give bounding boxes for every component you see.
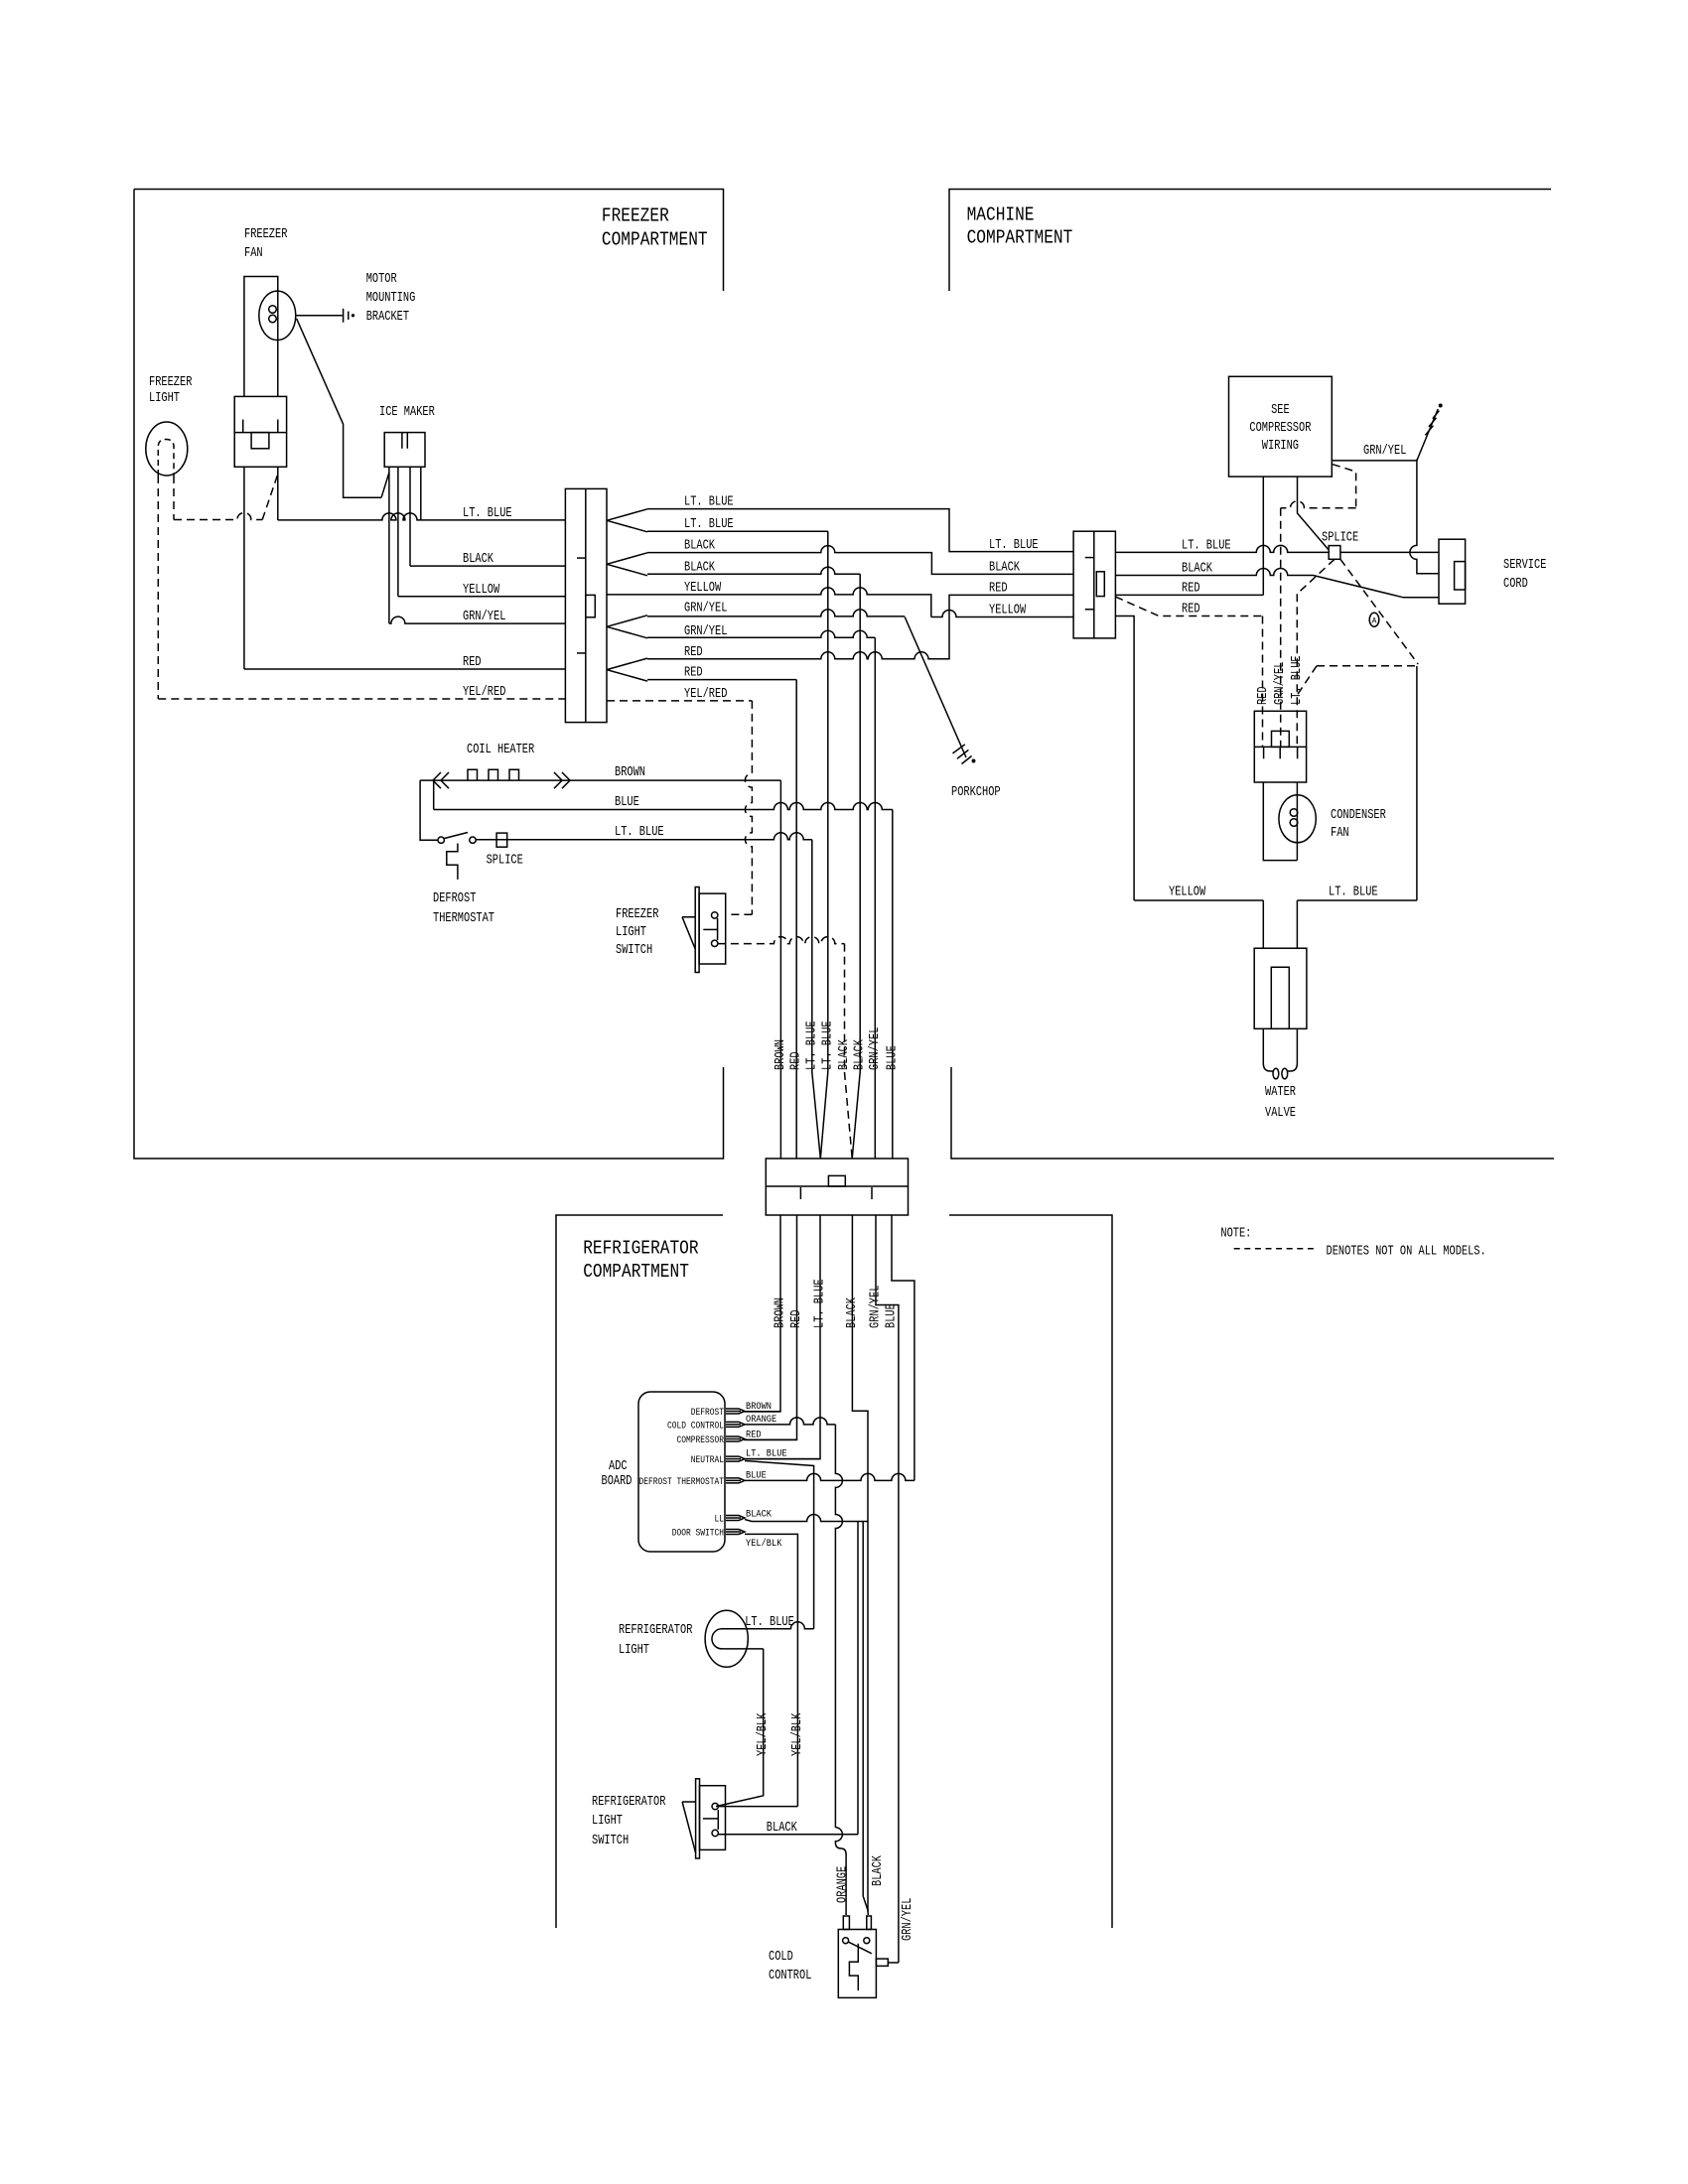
wire grn/yel antenna bbox=[1332, 409, 1438, 461]
connector pennant red bbox=[607, 658, 647, 681]
svg-text:BRACKET: BRACKET bbox=[366, 310, 409, 325]
compressor connector bbox=[1254, 711, 1306, 782]
svg-text:LT. BLUE: LT. BLUE bbox=[989, 538, 1039, 553]
motor mounting bracket wire bbox=[296, 315, 343, 317]
svg-text:COMPARTMENT: COMPARTMENT bbox=[602, 229, 708, 251]
svg-text:GRN/YEL: GRN/YEL bbox=[1273, 662, 1288, 705]
wire lt blue vertical 2 bbox=[820, 531, 828, 1159]
wire compressor lead right bbox=[1298, 477, 1330, 550]
wire adc lt blue bbox=[745, 1458, 820, 1460]
svg-text:GRN/YEL: GRN/YEL bbox=[869, 1286, 884, 1328]
svg-text:COMPARTMENT: COMPARTMENT bbox=[967, 226, 1073, 248]
svg-text:YEL/RED: YEL/RED bbox=[684, 687, 727, 702]
connector pennant black bbox=[607, 553, 647, 576]
freezer light switch flange bbox=[695, 887, 699, 973]
svg-text:COLD CONTROL: COLD CONTROL bbox=[667, 1421, 724, 1432]
freezer fan motor bbox=[259, 291, 296, 340]
wire grn/yel vertical cord bbox=[1410, 460, 1439, 574]
freezer light switch internal bbox=[717, 918, 719, 940]
svg-text:YELLOW: YELLOW bbox=[684, 581, 722, 596]
wire blue refrigerator bbox=[892, 1215, 914, 1480]
svg-text:BLACK: BLACK bbox=[837, 1038, 852, 1070]
svg-text:LT. BLUE: LT. BLUE bbox=[1290, 655, 1305, 705]
svg-text:LT. BLUE: LT. BLUE bbox=[1329, 886, 1378, 900]
adc pin defrost bbox=[726, 1409, 745, 1414]
defrost thermostat body bbox=[447, 844, 458, 880]
wire adc black bbox=[745, 1515, 868, 1522]
svg-text:COMPRESSOR: COMPRESSOR bbox=[677, 1435, 725, 1446]
svg-text:BROWN: BROWN bbox=[774, 1039, 788, 1070]
svg-text:GRN/YEL: GRN/YEL bbox=[684, 624, 727, 639]
svg-text:FREEZER: FREEZER bbox=[616, 907, 658, 922]
defrost thermostat terminals bbox=[438, 837, 444, 843]
wire grn/yel 1 porkchop bbox=[647, 610, 905, 616]
wire black main down bbox=[867, 1522, 869, 1916]
svg-text:GRN/YEL: GRN/YEL bbox=[901, 1898, 915, 1941]
svg-text:YEL/BLK: YEL/BLK bbox=[746, 1538, 782, 1550]
svg-text:LT. BLUE: LT. BLUE bbox=[684, 517, 734, 532]
wire black vertical 2 bbox=[852, 574, 860, 1159]
svg-text:LT. BLUE: LT. BLUE bbox=[804, 1021, 819, 1070]
water valve leads bbox=[1262, 900, 1264, 948]
refrigerator light switch internal bbox=[717, 1810, 719, 1830]
svg-text:YEL/BLK: YEL/BLK bbox=[756, 1712, 771, 1756]
wire fan connector to red bbox=[243, 467, 245, 669]
defrost thermostat arm bbox=[445, 833, 469, 839]
svg-text:SPLICE: SPLICE bbox=[487, 854, 523, 869]
svg-text:LL: LL bbox=[715, 1515, 725, 1526]
wire red 1 to machine bbox=[647, 595, 1073, 658]
ice maker pin 3 bbox=[409, 467, 411, 566]
svg-text:THERMOSTAT: THERMOSTAT bbox=[433, 911, 494, 926]
refrigerator light switch terminals bbox=[712, 1803, 718, 1809]
freezer light filament bbox=[158, 440, 174, 477]
wire adc red bbox=[745, 1438, 797, 1440]
motor mounting bracket ground bbox=[343, 309, 345, 323]
svg-text:GRN/YEL: GRN/YEL bbox=[1363, 444, 1406, 459]
wire freezer light to fan connector bbox=[174, 476, 262, 520]
wire lt blue refrigerator bbox=[744, 1215, 820, 1459]
machine compartment border bbox=[949, 190, 1551, 292]
wire yel/blk 2 end bbox=[718, 1806, 797, 1808]
refrigerator compartment border bbox=[556, 1215, 723, 1928]
wire fan to ice maker bbox=[297, 319, 382, 497]
wire orange vertical bbox=[835, 1425, 842, 1828]
svg-text:ORANGE: ORANGE bbox=[746, 1414, 776, 1426]
svg-text:BLACK: BLACK bbox=[463, 552, 494, 567]
svg-text:MOTOR: MOTOR bbox=[366, 272, 397, 287]
wire adc yel/blk bbox=[745, 1534, 797, 1806]
cold control body bbox=[838, 1930, 876, 1998]
cold control arm bbox=[849, 1942, 872, 1954]
svg-text:PORKCHOP: PORKCHOP bbox=[951, 785, 1001, 800]
svg-text:RED: RED bbox=[789, 1051, 804, 1070]
wire adc blue bbox=[745, 1473, 914, 1480]
wire brown refrigerator bbox=[744, 1215, 780, 1412]
water valve coil bbox=[1263, 1028, 1273, 1071]
wire lt blue splice bbox=[476, 833, 812, 840]
coil heater left verticals bbox=[420, 780, 438, 840]
wire black to cord bbox=[1115, 569, 1439, 598]
adc pin compressor bbox=[726, 1436, 745, 1441]
wire red dashed compressor bbox=[1262, 616, 1264, 748]
wire red to compressor bbox=[1115, 594, 1263, 596]
refrigerator light switch body bbox=[700, 1786, 726, 1850]
svg-text:FREEZER: FREEZER bbox=[149, 375, 192, 390]
svg-text:DEFROST: DEFROST bbox=[691, 1408, 724, 1419]
wire switch black bbox=[718, 1834, 858, 1836]
freezer light bulb bbox=[146, 422, 188, 476]
svg-text:BOARD: BOARD bbox=[602, 1474, 633, 1489]
svg-text:VALVE: VALVE bbox=[1265, 1106, 1296, 1121]
svg-text:BLUE: BLUE bbox=[885, 1045, 900, 1070]
svg-text:LIGHT: LIGHT bbox=[619, 1643, 649, 1658]
svg-text:MACHINE: MACHINE bbox=[967, 205, 1035, 226]
svg-text:LT. BLUE: LT. BLUE bbox=[746, 1448, 787, 1460]
freezer light switch terminals bbox=[712, 912, 718, 918]
adc pin neutral bbox=[726, 1456, 745, 1461]
cold control nubs bbox=[843, 1916, 849, 1930]
wire grn/yel 2 bbox=[647, 630, 875, 637]
svg-text:RED: RED bbox=[1182, 603, 1200, 617]
porkchop wire bbox=[905, 617, 966, 758]
svg-text:ADC: ADC bbox=[609, 1459, 628, 1474]
svg-text:NOTE:: NOTE: bbox=[1220, 1226, 1251, 1241]
wire yel/blk light bbox=[716, 1649, 764, 1807]
svg-text:GRN/YEL: GRN/YEL bbox=[463, 610, 505, 624]
connector pennant grn/yel bbox=[607, 615, 647, 638]
ice maker pin 2 bbox=[397, 467, 399, 597]
freezer fan leads bbox=[244, 277, 278, 397]
svg-text:LIGHT: LIGHT bbox=[592, 1814, 623, 1829]
svg-text:BLACK: BLACK bbox=[871, 1854, 886, 1886]
svg-text:RED: RED bbox=[684, 666, 703, 681]
svg-text:YELLOW: YELLOW bbox=[989, 604, 1027, 618]
condenser fan coil bbox=[1290, 809, 1298, 817]
wire black branch switch bbox=[857, 1522, 859, 1835]
wire switch black dashed bbox=[718, 937, 845, 944]
refrigerator light switch flange bbox=[696, 1779, 700, 1858]
wire grn/yel refrigerator bbox=[876, 1215, 899, 1963]
svg-text:CORD: CORD bbox=[1503, 577, 1528, 592]
adc pin door switch bbox=[726, 1530, 745, 1535]
wire adc brown bbox=[745, 1411, 780, 1413]
svg-text:BLACK: BLACK bbox=[853, 1038, 868, 1070]
condenser fan bbox=[1279, 795, 1316, 843]
wire blue vertical bbox=[892, 810, 894, 1160]
svg-text:LIGHT: LIGHT bbox=[616, 925, 646, 940]
machine sub box right bbox=[1416, 666, 1418, 900]
wire grn/yel dashed bbox=[1333, 465, 1356, 508]
wire yel/red right bbox=[607, 700, 752, 702]
svg-text:ORANGE: ORANGE bbox=[836, 1866, 851, 1903]
svg-text:SERVICE: SERVICE bbox=[1503, 558, 1546, 573]
ice maker pin 4 bbox=[420, 467, 422, 520]
svg-text:LT. BLUE: LT. BLUE bbox=[463, 506, 512, 521]
wire fan connector to lt blue bbox=[277, 467, 279, 520]
svg-text:RED: RED bbox=[989, 581, 1008, 596]
wire red freezer bbox=[244, 668, 566, 670]
svg-text:COMPARTMENT: COMPARTMENT bbox=[583, 1261, 689, 1283]
service cord bbox=[1439, 539, 1466, 604]
wire yellow freezer bbox=[398, 596, 566, 598]
svg-text:CONTROL: CONTROL bbox=[769, 1969, 811, 1983]
ice maker pin 1 bbox=[381, 467, 389, 497]
adc pin cold control bbox=[726, 1422, 745, 1427]
coil heater chevrons left bbox=[433, 772, 449, 788]
wire yellow machine bbox=[1115, 616, 1134, 901]
wire grn/yel vertical bbox=[874, 637, 876, 1159]
machine connector bbox=[1073, 531, 1115, 638]
wire lt blue vertical 1 bbox=[812, 840, 821, 1159]
svg-text:SWITCH: SWITCH bbox=[616, 943, 652, 958]
svg-text:COMPRESSOR: COMPRESSOR bbox=[1249, 421, 1311, 436]
svg-text:NEUTRAL: NEUTRAL bbox=[691, 1455, 724, 1466]
svg-text:FAN: FAN bbox=[1331, 826, 1349, 841]
svg-text:CONDENSER: CONDENSER bbox=[1331, 808, 1386, 823]
svg-text:DEFROST THERMOSTAT: DEFROST THERMOSTAT bbox=[639, 1477, 725, 1488]
svg-text:BROWN: BROWN bbox=[615, 765, 645, 780]
wire red refrigerator bbox=[744, 1215, 797, 1439]
freezer fan motor coil bbox=[269, 306, 277, 314]
note dashed sample bbox=[1234, 1248, 1315, 1250]
svg-text:REFRIGERATOR: REFRIGERATOR bbox=[583, 1238, 698, 1260]
wire lt blue light bbox=[745, 1622, 814, 1629]
svg-text:BLACK: BLACK bbox=[1182, 562, 1213, 577]
wire adc neutral branch bbox=[745, 1461, 814, 1629]
wire red 2 bbox=[647, 679, 796, 681]
svg-text:BLACK: BLACK bbox=[684, 560, 716, 575]
svg-text:LT. BLUE: LT. BLUE bbox=[615, 825, 664, 840]
coil heater chevrons right bbox=[554, 772, 570, 788]
wire yel/red to switch bbox=[745, 701, 752, 914]
refrigerator light bulb bbox=[705, 1610, 748, 1667]
freezer light switch body bbox=[699, 893, 726, 964]
splice dashed A path bbox=[1340, 559, 1418, 664]
svg-text:LT. BLUE: LT. BLUE bbox=[684, 495, 734, 510]
splice machine bbox=[1329, 546, 1340, 560]
ice maker body bbox=[384, 433, 425, 468]
wire red vertical bbox=[795, 680, 797, 1159]
adc pin defrost thermostat bbox=[726, 1478, 745, 1483]
cold control zigzag bbox=[849, 1944, 858, 1990]
svg-text:RED: RED bbox=[463, 655, 482, 670]
svg-text:COIL HEATER: COIL HEATER bbox=[467, 743, 534, 757]
svg-text:FREEZER: FREEZER bbox=[602, 205, 669, 227]
wire lt blue freezer bbox=[278, 513, 566, 520]
wire lt blue splice to cord bbox=[1340, 551, 1439, 553]
condenser fan leads bbox=[1263, 782, 1297, 861]
wire black freezer bbox=[410, 565, 565, 567]
svg-text:WATER: WATER bbox=[1265, 1085, 1296, 1100]
svg-text:FAN: FAN bbox=[244, 246, 263, 261]
wire lt blue to splice bbox=[1115, 545, 1329, 552]
svg-text:BROWN: BROWN bbox=[746, 1401, 772, 1413]
wire black branch cold bbox=[863, 1522, 868, 1912]
wire compressor lead left bbox=[1262, 477, 1264, 595]
wire lt blue 1 to machine bbox=[647, 509, 1073, 552]
svg-text:MOUNTING: MOUNTING bbox=[366, 291, 416, 306]
wire yel/red freezer bbox=[158, 698, 565, 700]
wire brown vertical bbox=[779, 780, 781, 1159]
svg-text:RED: RED bbox=[684, 645, 703, 660]
svg-text:BLACK: BLACK bbox=[845, 1297, 860, 1328]
svg-text:DEFROST: DEFROST bbox=[433, 891, 476, 906]
wire grn/yel cold bbox=[888, 1962, 899, 1964]
svg-text:RED: RED bbox=[1182, 581, 1200, 596]
svg-text:A: A bbox=[1372, 617, 1377, 626]
coil heater element bbox=[420, 779, 780, 781]
wire black 1 to machine bbox=[647, 546, 1073, 575]
water valve body bbox=[1254, 948, 1307, 1028]
svg-text:YEL/BLK: YEL/BLK bbox=[790, 1712, 805, 1756]
svg-text:YELLOW: YELLOW bbox=[1169, 886, 1206, 900]
freezer compartment border bbox=[134, 190, 724, 292]
svg-text:REFRIGERATOR: REFRIGERATOR bbox=[592, 1795, 665, 1810]
svg-text:COLD: COLD bbox=[769, 1950, 793, 1965]
wire blue bbox=[434, 803, 893, 810]
svg-text:WIRING: WIRING bbox=[1262, 439, 1299, 454]
wire lt blue bottom bbox=[1297, 899, 1417, 901]
compressor box bbox=[1229, 376, 1333, 477]
svg-text:LT. BLUE: LT. BLUE bbox=[820, 1021, 835, 1070]
antenna ground bbox=[1425, 426, 1433, 436]
wire black refrigerator bbox=[852, 1215, 868, 1522]
svg-text:DENOTES NOT ON ALL MODELS.: DENOTES NOT ON ALL MODELS. bbox=[1327, 1244, 1486, 1259]
cold control terminals bbox=[843, 1938, 849, 1944]
wire grn/yel freezer bbox=[389, 616, 566, 623]
freezer light switch wedge bbox=[682, 917, 695, 949]
freezer connector bbox=[565, 488, 607, 722]
freezer fan connector bbox=[234, 396, 286, 467]
svg-text:LT. BLUE: LT. BLUE bbox=[813, 1279, 828, 1328]
svg-text:SWITCH: SWITCH bbox=[592, 1834, 629, 1848]
svg-text:RED: RED bbox=[1256, 686, 1271, 705]
porkchop ground bbox=[953, 745, 965, 753]
wire black 2 bbox=[647, 567, 860, 574]
adc pin ll bbox=[726, 1516, 745, 1521]
svg-text:YEL/RED: YEL/RED bbox=[463, 685, 505, 700]
svg-text:BLUE: BLUE bbox=[885, 1303, 900, 1328]
svg-text:GRN/YEL: GRN/YEL bbox=[684, 601, 727, 615]
wire yellow bottom bbox=[1134, 899, 1263, 901]
svg-text:BLACK: BLACK bbox=[989, 560, 1021, 575]
svg-text:BLACK: BLACK bbox=[767, 1821, 798, 1836]
connector pennant lt blue bbox=[607, 509, 647, 532]
cold control side nub bbox=[876, 1959, 888, 1966]
svg-text:SPLICE: SPLICE bbox=[1322, 531, 1358, 546]
splice freezer bbox=[496, 833, 507, 847]
wire red dashed bbox=[1115, 597, 1262, 615]
wire freezer light yel/red bbox=[157, 476, 159, 699]
svg-text:RED: RED bbox=[789, 1309, 804, 1328]
svg-text:BLACK: BLACK bbox=[746, 1509, 773, 1521]
splice dashed lt blue bbox=[1297, 559, 1335, 594]
svg-text:GRN/YEL: GRN/YEL bbox=[868, 1027, 883, 1070]
adc board bbox=[638, 1392, 725, 1552]
svg-text:BLACK: BLACK bbox=[684, 539, 716, 554]
svg-text:BLUE: BLUE bbox=[615, 795, 639, 810]
svg-text:YELLOW: YELLOW bbox=[463, 583, 500, 598]
wire yellow to machine bbox=[607, 588, 931, 617]
wire adc orange bbox=[745, 1418, 835, 1425]
svg-text:LT. BLUE: LT. BLUE bbox=[1182, 538, 1231, 553]
svg-text:LT. BLUE: LT. BLUE bbox=[745, 1615, 794, 1630]
svg-text:REFRIGERATOR: REFRIGERATOR bbox=[619, 1623, 692, 1638]
svg-text:BROWN: BROWN bbox=[774, 1297, 788, 1328]
svg-text:FREEZER: FREEZER bbox=[244, 227, 287, 242]
wire lt blue 2 bbox=[647, 530, 828, 532]
svg-text:LIGHT: LIGHT bbox=[149, 391, 180, 406]
wire black dashed vertical bbox=[844, 944, 846, 1072]
svg-text:DOOR SWITCH: DOOR SWITCH bbox=[672, 1529, 724, 1540]
svg-text:ICE MAKER: ICE MAKER bbox=[379, 405, 435, 420]
dashed path top bbox=[1317, 665, 1417, 667]
refrigerator light switch wedge bbox=[682, 1802, 696, 1853]
svg-text:RED: RED bbox=[746, 1429, 762, 1440]
refrigerator connector bbox=[766, 1159, 908, 1215]
wire freezer light diagonal bbox=[262, 476, 277, 520]
refrigerator light filament bbox=[712, 1629, 764, 1649]
svg-text:BLUE: BLUE bbox=[746, 1469, 767, 1481]
svg-text:SEE: SEE bbox=[1271, 403, 1290, 418]
splice node A bbox=[1369, 613, 1379, 626]
